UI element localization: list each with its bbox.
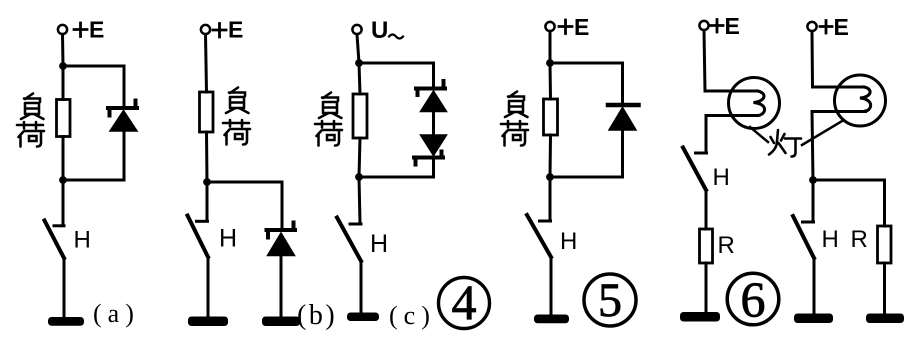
label +E (b) <box>213 24 226 38</box>
node C2 junction <box>355 173 363 181</box>
terminal +E (5) <box>545 22 554 31</box>
switch H (a) fixed contact tick <box>54 224 64 227</box>
load label 荷 (5) <box>501 121 528 146</box>
resistor R (6 left) <box>700 229 713 263</box>
wire node A1 to right branch top <box>63 65 124 68</box>
resistor load (b) <box>200 92 214 132</box>
node A1 junction <box>59 62 67 70</box>
svg-text:E: E <box>725 13 740 39</box>
node B1 junction <box>203 178 211 186</box>
zener diode (c) upper cathode bar <box>416 81 445 95</box>
label +E (6 left) <box>711 20 723 33</box>
wire node D2 right to diode branch <box>550 176 623 179</box>
wire terminal (5) to node D1 <box>549 31 552 63</box>
wire zener (a) to node A2 <box>123 131 126 180</box>
ground (6 right) left <box>794 314 833 324</box>
svg-text:H: H <box>560 228 577 255</box>
zener diode (b) triangle <box>268 233 295 256</box>
svg-text:(b): (b) <box>297 300 337 331</box>
switch H (5) blade <box>527 215 551 257</box>
wire load (5) to node D2 <box>549 135 553 177</box>
switch H (5) fixed contact tick <box>540 220 551 223</box>
switch H (6 right) blade <box>793 216 814 258</box>
terminal +E (6 right) <box>807 22 816 31</box>
label +E (6 right) <box>820 21 832 34</box>
wire node C2 right to zener branch <box>359 176 434 179</box>
svg-text:E: E <box>228 17 243 43</box>
zener diode (a) triangle <box>110 111 137 132</box>
switch H (6 left) blade <box>683 148 706 191</box>
wire terminal (c) to node C1 <box>357 34 359 63</box>
ground (b) right <box>262 317 300 327</box>
terminal +E (a) <box>58 25 67 34</box>
label +E (a) <box>74 23 87 37</box>
svg-text:6: 6 <box>741 271 766 327</box>
wire load bottom to node A2 <box>62 137 65 181</box>
zener diode (a) cathode bar <box>108 101 137 116</box>
wire node B1 down to switch (b) <box>206 182 209 221</box>
node C1 junction <box>355 59 363 67</box>
svg-text:H: H <box>713 164 730 191</box>
wire terminal (6 left) down <box>704 30 705 91</box>
wire node A1 to load resistor top <box>62 66 65 100</box>
zener diode (c) lower triangle <box>421 135 447 156</box>
leader line to left lamp <box>750 127 768 142</box>
lamp label 灯 <box>769 130 801 157</box>
svg-text:R: R <box>851 226 868 253</box>
node D2 junction <box>546 173 554 181</box>
wire between zeners (c) <box>432 111 435 136</box>
node D1 junction <box>546 59 554 67</box>
wire node E1 right to resistor branch <box>813 179 885 182</box>
ground (6 right) right <box>866 314 904 324</box>
svg-text:E: E <box>834 14 849 40</box>
switch H (a) blade <box>45 221 65 259</box>
label +E (5) <box>559 20 572 34</box>
resistor load (c) <box>353 94 367 138</box>
wire out of lamp (6 left) <box>706 114 758 117</box>
wire node B1 right to zener branch (b) <box>207 181 282 184</box>
diode (5) cathode bar <box>608 103 639 108</box>
wire terminal (b) to load <box>206 34 207 92</box>
load label 负 (b) <box>226 88 249 114</box>
ground (6 left) <box>680 312 720 322</box>
zener diode (c) lower cathode bar <box>414 152 443 165</box>
wire diode branch (5) down <box>621 63 624 103</box>
wire lamp to switch (6 left) <box>705 116 708 153</box>
wire lower zener (c) to node C2 <box>432 158 435 178</box>
wire right branch down to zener (a) <box>123 66 126 105</box>
wire switch (5) to ground <box>550 257 553 315</box>
svg-text:H: H <box>822 226 839 253</box>
wire switch (c) to ground <box>360 261 363 313</box>
wire resistor branch down (6 right) <box>883 180 886 226</box>
wire out of lamp (6 right) <box>812 110 866 113</box>
svg-text:H: H <box>219 225 237 253</box>
svg-text:4: 4 <box>452 274 477 330</box>
svg-text:(c): (c) <box>389 301 436 330</box>
node E1 junction <box>809 176 817 184</box>
wire node E1 down to switch (6 right) <box>812 180 815 221</box>
wire resistor to ground (6 left) <box>705 263 708 312</box>
svg-text:5: 5 <box>598 274 622 327</box>
svg-text:E: E <box>89 17 104 43</box>
load label 负 (5) <box>505 92 528 118</box>
switch H (b) blade <box>188 216 209 258</box>
zener diode (c) upper triangle <box>421 91 447 112</box>
circled number 4 <box>439 278 490 329</box>
wire zener (b) to ground <box>280 255 283 317</box>
wire node C2 down to switch (c) <box>359 177 360 223</box>
wire switch to ground (6 right) <box>813 258 816 314</box>
ground (b) left <box>188 317 228 327</box>
lamp filament (6 left) <box>754 91 765 116</box>
resistor R (6 right) <box>878 226 892 263</box>
wire node A2 down to switch H (a) <box>62 180 65 225</box>
terminal U~ (c) <box>352 25 361 34</box>
wire switch (a) to ground <box>63 258 66 318</box>
lamp bulb circle (6 right) <box>835 75 886 126</box>
lamp filament (6 right) <box>860 87 871 111</box>
ground (5) <box>534 315 569 324</box>
svg-text:R: R <box>718 232 735 259</box>
svg-text:H: H <box>370 230 388 258</box>
switch H (6 left) fixed contact tick <box>696 152 707 155</box>
switch H (c) fixed contact tick <box>350 223 361 226</box>
wire node D1 to load (5) <box>549 63 553 99</box>
wire node C1 right to zener branch (c) <box>359 62 434 65</box>
wire zener branch (b) down <box>281 182 284 228</box>
circled number 6 <box>727 273 779 325</box>
diode (5) triangle <box>609 108 636 131</box>
wire load (b) to node B1 <box>205 132 209 182</box>
wire load (c) to node C2 <box>359 138 360 177</box>
load label 荷 (b) <box>223 120 250 145</box>
load label 负 (c) <box>319 93 342 119</box>
wire zener branch (c) down <box>432 63 435 86</box>
circled number 5 <box>584 274 636 326</box>
wire lamp to node E1 (6 right) <box>812 112 813 181</box>
terminal +E (b) <box>201 25 210 34</box>
wire into lamp (6 right) <box>813 86 865 89</box>
load label 荷 (c) <box>315 121 342 146</box>
ground (c) <box>347 313 379 322</box>
wire node D1 right to diode branch (5) <box>550 62 623 65</box>
switch H (b) fixed contact tick <box>197 220 208 223</box>
wire node C1 to load (c) <box>359 63 360 94</box>
wire resistor to ground (6 right) <box>883 263 886 314</box>
svg-text:(a): (a) <box>93 299 140 328</box>
load label 负 (a) <box>21 94 44 120</box>
wire switch to resistor R (6 left) <box>705 190 708 229</box>
ground (a) <box>48 317 84 326</box>
wire node D2 down to switch (5) <box>549 177 552 220</box>
leader line to right lamp <box>802 121 843 146</box>
wire from terminal to node A1 <box>61 34 65 66</box>
svg-text:H: H <box>74 227 91 254</box>
wire node A2 right to zener branch <box>63 179 124 182</box>
wire diode (5) to node D2 <box>621 129 624 177</box>
switch H (6 right) fixed contact tick <box>803 221 814 224</box>
wire switch (b) to ground <box>207 257 210 317</box>
node A2 junction <box>59 176 67 184</box>
wire into lamp (6 left) <box>705 90 758 93</box>
wire terminal (6 right) down <box>811 31 815 87</box>
resistor load (a) <box>57 100 71 137</box>
switch H (c) blade <box>337 218 361 262</box>
lamp bulb circle (6 left) <box>729 78 780 129</box>
resistor load (5) <box>544 99 558 135</box>
svg-text:E: E <box>574 14 589 40</box>
svg-text:U: U <box>371 17 388 44</box>
terminal +E (6 left) <box>699 21 708 30</box>
zener diode (b) cathode bar <box>267 223 296 238</box>
load label 荷 (a) <box>17 122 44 147</box>
